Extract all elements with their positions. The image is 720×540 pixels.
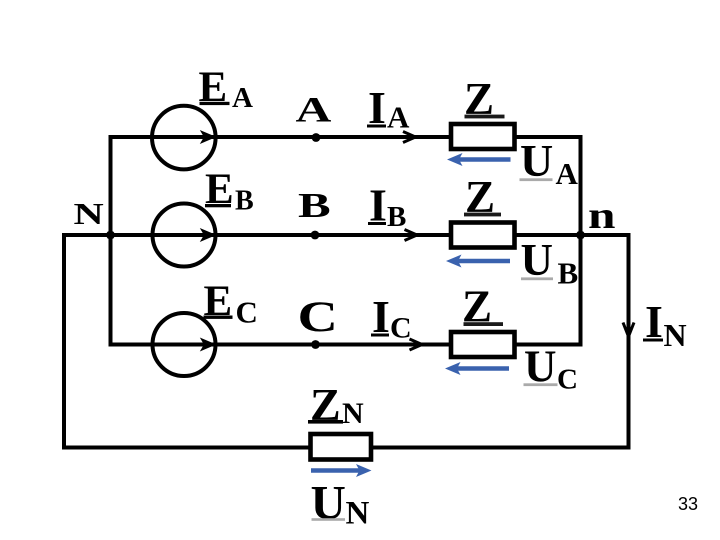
source E_C emf arrowhead bbox=[201, 339, 215, 351]
label E_A bbox=[199, 64, 254, 114]
load Z box phase A bbox=[451, 124, 515, 149]
wire: right join vertical at load star point bbox=[579, 135, 583, 347]
node n junction dot bbox=[576, 231, 585, 240]
svg-text:A: A bbox=[556, 156, 579, 191]
label Z phase B bbox=[464, 172, 501, 222]
source E_A emf arrowhead bbox=[201, 131, 215, 143]
label U_B bbox=[521, 235, 579, 291]
label I_C bbox=[371, 291, 412, 345]
wire: left source bus vertical bbox=[109, 135, 113, 347]
wire: right outer vertical neutral return bbox=[627, 233, 631, 450]
neutral impedance Z_N box bbox=[311, 434, 372, 460]
svg-text:B: B bbox=[298, 187, 331, 225]
svg-text:A: A bbox=[387, 100, 410, 135]
svg-text:A: A bbox=[232, 82, 253, 114]
load Z box phase B bbox=[451, 223, 515, 248]
svg-text:U: U bbox=[311, 475, 346, 530]
label I_B bbox=[368, 180, 406, 234]
node C junction dot bbox=[311, 340, 320, 349]
node label B bbox=[298, 187, 331, 225]
label E_C bbox=[204, 278, 258, 330]
current arrowhead I_C on wire bbox=[410, 339, 423, 350]
current arrowhead I_B on wire bbox=[405, 230, 418, 241]
svg-text:B: B bbox=[387, 201, 406, 233]
label I_A bbox=[367, 82, 410, 135]
label Z phase C bbox=[462, 282, 503, 332]
node label C bbox=[298, 293, 338, 340]
node A junction dot bbox=[312, 133, 321, 142]
svg-text:N: N bbox=[346, 496, 370, 532]
label I_N bbox=[643, 296, 687, 353]
load Z box phase C bbox=[451, 332, 515, 357]
node B junction dot bbox=[311, 231, 320, 240]
svg-text:N: N bbox=[342, 397, 364, 430]
source E_B emf arrowhead bbox=[201, 229, 215, 241]
current arrowhead I_A on wire bbox=[403, 132, 416, 143]
svg-text:N: N bbox=[74, 196, 105, 231]
wire: left outer vertical from N down bbox=[62, 233, 66, 450]
source E_C circle bbox=[153, 313, 216, 376]
svg-text:C: C bbox=[390, 312, 412, 345]
node label n bbox=[588, 194, 615, 236]
page number 33 bbox=[678, 494, 698, 514]
svg-text:C: C bbox=[236, 295, 258, 330]
voltage arrow U_B (blue, left) bbox=[446, 255, 510, 268]
label U_A bbox=[520, 135, 579, 191]
node label A bbox=[296, 90, 332, 130]
svg-text:33: 33 bbox=[678, 494, 698, 514]
label Z_N bbox=[308, 379, 364, 430]
svg-text:C: C bbox=[298, 293, 338, 340]
wire: phase B horizontal row bbox=[64, 233, 581, 237]
label Z phase A bbox=[464, 74, 505, 124]
current arrowhead I_N on right vertical bbox=[623, 323, 634, 337]
svg-text:n: n bbox=[588, 194, 615, 236]
wire: phase A horizontal row bbox=[109, 135, 581, 139]
wire: bottom neutral horizontal bbox=[62, 446, 629, 450]
voltage arrow U_A (blue, left) bbox=[447, 153, 511, 166]
source E_A circle bbox=[152, 106, 216, 170]
svg-text:N: N bbox=[664, 317, 687, 353]
svg-text:A: A bbox=[296, 90, 332, 130]
node N junction dot bbox=[106, 231, 115, 240]
source E_B circle bbox=[153, 204, 216, 267]
wire: phase C horizontal row bbox=[109, 343, 581, 347]
label U_N bbox=[311, 475, 370, 532]
wire: n to right corner horizontal bbox=[581, 233, 629, 237]
label U_C bbox=[524, 342, 578, 396]
voltage arrow U_N (blue, right) bbox=[311, 464, 372, 477]
svg-text:C: C bbox=[557, 364, 578, 396]
node label N bbox=[74, 196, 105, 231]
svg-text:B: B bbox=[558, 256, 579, 291]
svg-text:B: B bbox=[235, 186, 254, 217]
voltage arrow U_C (blue, left) bbox=[445, 362, 509, 375]
label E_B bbox=[205, 166, 254, 217]
